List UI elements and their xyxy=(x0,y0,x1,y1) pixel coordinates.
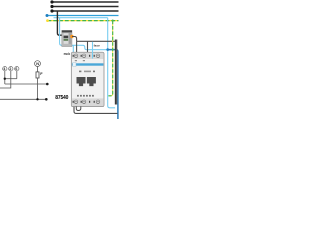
voltage tap wire (light blue) into meter xyxy=(92,42,94,59)
node end neutral wire xyxy=(45,98,48,101)
svg-text:F: F xyxy=(40,72,43,76)
wire from terminal 6 xyxy=(16,71,18,79)
node light blue riser junction xyxy=(106,48,109,51)
phase wire mcb to cable xyxy=(72,37,115,42)
light-blue drop into meter terminal xyxy=(72,45,74,53)
outgoing cable (thick grey bar) xyxy=(115,40,117,105)
light blue riser alongside meter xyxy=(108,18,115,108)
terminal circle 2 xyxy=(9,67,13,72)
jumper link meter bottom terminals xyxy=(76,106,81,110)
meter top terminals xyxy=(73,54,100,58)
wire from terminal 4 xyxy=(4,71,6,84)
wire L3 to mcb xyxy=(57,11,62,35)
neutral feed wire from left xyxy=(0,98,46,100)
phase bus L3 xyxy=(50,9,118,12)
svg-text:6: 6 xyxy=(15,67,17,71)
phase drop into meter terminal 1 xyxy=(76,41,78,53)
svg-text:4: 4 xyxy=(3,67,5,71)
wire meter bottom to load neutral xyxy=(74,107,118,114)
meter RJ socket right xyxy=(87,77,96,86)
meter blue stripe xyxy=(72,63,104,67)
terminal circle N xyxy=(35,61,41,67)
PE drop to meter (green/yellow) xyxy=(108,21,112,96)
meter RJ socket left xyxy=(77,77,86,86)
wire to meter (upper) xyxy=(5,83,48,85)
switched neutral bus (light blue) xyxy=(54,17,108,19)
mcb body xyxy=(62,30,72,46)
phase tap drop into meter terminal 3 xyxy=(87,41,89,53)
PE bus (green/yellow) xyxy=(46,19,118,22)
tie wire terminals 4-2-6 xyxy=(5,78,17,80)
wire N to fuse xyxy=(37,67,39,72)
svg-text:N: N xyxy=(36,61,39,66)
meter 87540 body xyxy=(71,52,104,106)
meter bottom terminals xyxy=(73,100,100,104)
phase bus L2 xyxy=(50,5,118,8)
node end upper wire xyxy=(46,83,49,86)
wire fuse to neutral line xyxy=(37,78,39,99)
wire light-blue drop from bus to meter run xyxy=(60,18,108,50)
terminal circle 6 xyxy=(15,67,19,72)
node on wire 4 xyxy=(4,78,6,80)
wire from terminal 2 exits left xyxy=(0,71,11,88)
meter screw slots xyxy=(75,60,85,61)
meter small markings xyxy=(79,71,95,73)
orange indicator on mcb xyxy=(70,35,73,38)
svg-text:mcb: mcb xyxy=(64,52,71,56)
svg-text:fase: fase xyxy=(94,44,100,48)
terminal circle 4 xyxy=(3,67,7,72)
phase bus L1 xyxy=(50,0,118,3)
fuse F xyxy=(36,72,39,78)
node N junction xyxy=(36,98,38,100)
neutral wire to load (blue, right edge) xyxy=(108,50,118,119)
svg-text:87540: 87540 xyxy=(55,95,68,101)
neutral bus N (blue) xyxy=(46,14,119,17)
meter terminal pin row xyxy=(77,95,94,97)
svg-text:2: 2 xyxy=(9,67,11,71)
